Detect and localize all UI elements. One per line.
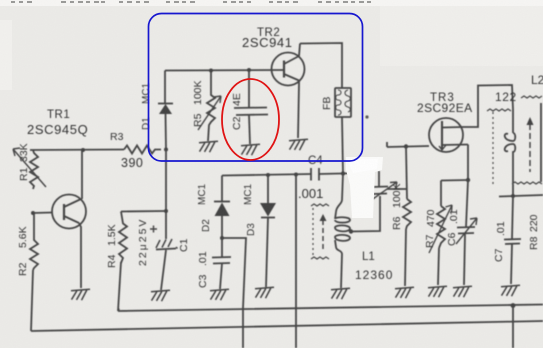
wire L1 top lead bbox=[336, 174, 343, 213]
capacitor C6 arrow bbox=[456, 218, 477, 244]
diode D2 cathode bar bbox=[214, 201, 230, 203]
wire top rail in blue box bbox=[165, 69, 283, 72]
label C3 bbox=[197, 274, 209, 288]
ground R5 bbox=[199, 141, 218, 152]
label R2 5.6K bbox=[17, 226, 29, 276]
node collector junction bbox=[81, 148, 85, 152]
wire TR2 collector up bbox=[299, 44, 300, 57]
capacitor C7 plate1 bbox=[504, 238, 521, 241]
ground C7 bbox=[501, 285, 520, 296]
label 22u25V bbox=[137, 218, 149, 266]
node C7 top bbox=[511, 194, 515, 198]
ground TR2 emitter bbox=[289, 139, 308, 150]
node FB junction bbox=[341, 171, 345, 175]
label C1 bbox=[178, 238, 190, 252]
wire base bbox=[33, 212, 52, 215]
wire D3 to ground bbox=[266, 218, 268, 288]
capacitor C4 plate1 bbox=[310, 168, 312, 181]
red annotation ellipse bbox=[222, 79, 279, 160]
diode D1 bbox=[158, 103, 173, 105]
node L1 tap bbox=[349, 229, 353, 233]
wire TR3 collector bbox=[462, 85, 513, 127]
wire L1 tap to trimmer bbox=[349, 196, 380, 232]
resistor R1 zigzag bbox=[30, 150, 38, 189]
ground C3 bbox=[210, 289, 229, 300]
capacitor C6 lead bbox=[466, 180, 468, 227]
capacitor C4 plate2 bbox=[318, 168, 320, 181]
transformer top squiggle bbox=[487, 109, 511, 111]
wire C6 to ground bbox=[464, 234, 465, 285]
node D3 top bbox=[266, 173, 270, 177]
wire secondary rail y196 bbox=[499, 195, 543, 197]
ground TR1 emitter bbox=[71, 289, 90, 300]
L1 slug arrow dashed bbox=[322, 220, 324, 250]
node R6 top bbox=[404, 144, 408, 148]
wire D2 node right and down bbox=[222, 238, 246, 308]
wire R4 down to rail1 bbox=[118, 262, 121, 311]
capacitor C6 plate2 bbox=[458, 232, 474, 235]
label C2 value glyph bbox=[231, 93, 243, 106]
wire C5 to R6 column bbox=[387, 188, 407, 190]
label MC1 (D1) bbox=[141, 82, 152, 104]
capacitor C7 plate2 bbox=[505, 243, 520, 246]
wire base rail y147 bbox=[387, 142, 429, 147]
transformer dashed left edge bbox=[492, 112, 494, 185]
L1 core dashed box top squiggle bbox=[311, 204, 329, 206]
label R8 220 bbox=[528, 214, 540, 250]
label R6 100K bbox=[391, 183, 403, 230]
capacitor C3 plate2 bbox=[213, 262, 230, 265]
transformer slug arrow bbox=[529, 124, 531, 172]
resistor R4 zigzag bbox=[119, 212, 127, 264]
ground C1 column bbox=[151, 290, 170, 301]
wire R6 to ground bbox=[405, 229, 406, 286]
capacitor C2 plate1 bbox=[234, 107, 267, 110]
inductor L1 loops bbox=[335, 212, 350, 254]
label .01 (C3) bbox=[197, 251, 209, 266]
capacitor C3 plate1 bbox=[212, 256, 231, 259]
wire C1 to ground bbox=[161, 250, 166, 290]
stray speck bbox=[365, 115, 368, 118]
ground R7 bbox=[428, 286, 447, 297]
wire x166 down bbox=[165, 150, 167, 240]
node AVC junction x296 bbox=[294, 173, 298, 177]
cut-off text remnants top edge bbox=[11, 1, 371, 3]
transformer top-right squiggle bbox=[521, 96, 542, 98]
capacitor C2 plate2 bbox=[236, 114, 268, 117]
wire R4 top rail bbox=[121, 210, 166, 213]
wire collector rail y150 bbox=[30, 149, 124, 152]
label FB bbox=[321, 97, 333, 110]
wire D3 top bbox=[267, 175, 269, 203]
node R3/D1 junction bbox=[164, 148, 168, 152]
resistor R3 zigzag bbox=[124, 146, 161, 154]
node emitter junction bbox=[466, 178, 470, 182]
wire detector rail y175 bbox=[222, 174, 311, 176]
transformer bottom squiggle bbox=[512, 182, 542, 184]
label C2 bbox=[231, 116, 243, 130]
wire C4 right bbox=[319, 173, 341, 176]
wire x296 vertical to bottom bbox=[295, 175, 297, 348]
resistor R5 zigzag bbox=[207, 71, 215, 142]
label D1 bbox=[141, 117, 152, 130]
transistor TR1 bbox=[52, 195, 86, 229]
wire D1 column bbox=[164, 71, 166, 104]
wire TR2 emitter bbox=[298, 81, 299, 139]
wire x513 down bbox=[512, 306, 514, 348]
paper grain bbox=[0, 0, 1, 1]
diode D3 bar bbox=[261, 217, 275, 219]
wire rail2 bbox=[31, 321, 543, 331]
ferrite bead FB winding bbox=[336, 90, 351, 115]
label R1 33K bbox=[18, 143, 30, 181]
ferrite bead FB body bbox=[335, 88, 351, 117]
capacitor C1 electrolytic plus bbox=[150, 226, 157, 233]
resistor R7 zigzag bbox=[437, 206, 445, 248]
label MC1 (D3) bbox=[243, 183, 254, 205]
resistor R7 arrow bbox=[429, 205, 452, 253]
capacitor C5 arrow bbox=[370, 182, 397, 201]
wire node into white patch bbox=[343, 172, 354, 175]
wire TR1 emitter bbox=[79, 223, 81, 288]
node R5 top bbox=[209, 69, 213, 73]
wire R7 column bbox=[440, 181, 442, 207]
node rail1 junction bbox=[511, 303, 516, 308]
wire D2 to node bbox=[221, 216, 223, 238]
wire C3 to ground bbox=[220, 264, 222, 290]
wire R7 to ground bbox=[438, 248, 439, 285]
node base junction bbox=[31, 211, 35, 215]
ground R6 bbox=[395, 287, 414, 298]
capacitor C1 hatched plate bbox=[156, 239, 178, 249]
label C7 .01 bbox=[493, 221, 507, 262]
capacitor C5 top lead bbox=[378, 171, 380, 186]
node C2 top bbox=[247, 68, 251, 72]
resistor R1 arrow bbox=[13, 148, 46, 187]
resistor R5 arrow bbox=[198, 96, 221, 130]
resistor R6 zigzag bbox=[403, 199, 411, 229]
transformer right winding partial bbox=[540, 103, 542, 182]
node R4 wire junction bbox=[164, 209, 168, 213]
capacitor C7 lead bbox=[512, 196, 513, 239]
wire L1 bottom to ground bbox=[341, 254, 342, 288]
wire C7 to ground bbox=[511, 244, 512, 284]
capacitor C5 plate1 bbox=[372, 186, 388, 189]
capacitor C3 upper lead bbox=[221, 238, 223, 257]
wire collector top to FB bbox=[300, 43, 342, 88]
wire emitter rail y180 bbox=[441, 179, 468, 182]
wire FB down to node bbox=[342, 117, 343, 173]
capacitor C1 bottom plate bbox=[156, 249, 176, 250]
label C6 .01 bbox=[446, 209, 460, 246]
white-out patch center bbox=[346, 157, 383, 218]
label R4 1.5K bbox=[106, 224, 118, 268]
wire TR1 collector bbox=[81, 150, 83, 199]
capacitor C6 plate1 bbox=[457, 226, 475, 229]
wire AGC vertical lower bbox=[242, 308, 244, 348]
label R7 470 bbox=[424, 209, 437, 248]
transistor TR3 bbox=[429, 118, 463, 152]
label MC1 (D2) bbox=[197, 183, 208, 205]
ground C2 bbox=[241, 144, 260, 155]
capacitor C2 lead bbox=[248, 70, 250, 108]
ground L1 bbox=[331, 288, 350, 299]
label R5 100K bbox=[192, 80, 204, 127]
label D2 bbox=[201, 219, 212, 232]
blue annotation rectangle bbox=[149, 14, 363, 162]
capacitor C2 lower lead bbox=[249, 115, 250, 144]
transistor TR2 bbox=[272, 53, 305, 86]
ground D3 bbox=[255, 287, 274, 298]
diode D3 triangle filled bbox=[260, 203, 276, 217]
resistor R2 zigzag bbox=[30, 213, 38, 270]
wire R2 down to bottom rail bbox=[31, 270, 33, 331]
wire transformer bottom lead bbox=[512, 184, 514, 196]
ground C6 bbox=[453, 286, 472, 297]
wire R6 column bbox=[406, 147, 407, 200]
capacitor C5 plate2 bbox=[373, 193, 387, 196]
diode D2 triangle bbox=[215, 203, 230, 217]
node D2 bottom bbox=[220, 236, 224, 240]
L1 core dashed left edge bbox=[312, 208, 314, 258]
wire rail1 bbox=[118, 305, 543, 312]
label D3 bbox=[246, 223, 257, 236]
wire TR3 emitter down bbox=[467, 145, 469, 181]
transformer primary winding bbox=[505, 109, 516, 183]
wire D2 column top bbox=[221, 176, 223, 202]
L1 core bottom squiggle bbox=[311, 257, 329, 259]
